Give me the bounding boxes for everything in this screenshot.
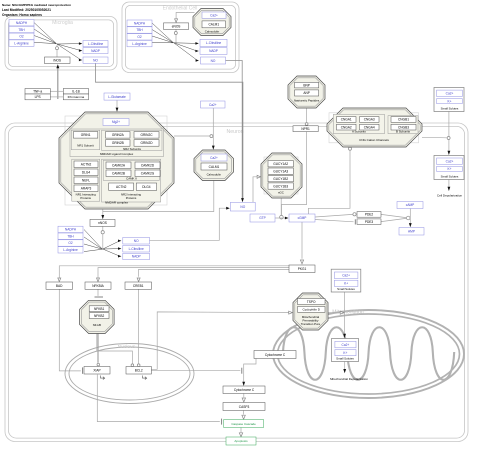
- svg-text:Nucleus: Nucleus: [118, 344, 136, 350]
- neuron L-Citrulline: [123, 245, 150, 252]
- CNG channels group box: [329, 113, 419, 143]
- GUCY1B3: [268, 183, 293, 189]
- svg-text:AMP: AMP: [408, 230, 415, 234]
- svg-text:NADP: NADP: [91, 49, 100, 53]
- TSPO: [298, 299, 326, 305]
- svg-text:NR2 Subunits: NR2 Subunits: [123, 147, 141, 151]
- wire neuron product fan: [103, 241, 120, 249]
- svg-text:Apoptosis: Apoptosis: [234, 439, 248, 443]
- svg-text:GRIN2B: GRIN2B: [112, 141, 124, 145]
- wire cAMP to AMP: [409, 209, 411, 225]
- svg-text:XIAP: XIAP: [93, 369, 100, 373]
- wire MPTP to transport anchor: [328, 312, 341, 314]
- wire NPR1 catalysis to GTP-cGMP: [282, 132, 307, 215]
- svg-text:NADP: NADP: [132, 255, 141, 259]
- GRIN2A: [106, 132, 131, 139]
- svg-text:NEFL: NEFL: [82, 179, 90, 183]
- wire cGMP to PKG1: [301, 222, 303, 259]
- microglia products: [83, 41, 108, 47]
- BCL2 transcription glyph: [143, 376, 147, 380]
- IFN-Gamma: [63, 94, 88, 100]
- svg-text:CNGB1: CNGB1: [398, 118, 409, 122]
- GUCY1B2: [268, 176, 293, 182]
- CALM1 neuron: [201, 163, 227, 170]
- neuron substrates: [58, 226, 83, 232]
- svg-text:L-Arginine: L-Arginine: [132, 42, 147, 46]
- CAMK II group: [103, 161, 159, 181]
- svg-text:Microglia: Microglia: [52, 20, 73, 26]
- mitochondrion: [273, 310, 464, 398]
- svg-text:Proteins: Proteins: [126, 196, 137, 200]
- CREB1: [125, 282, 152, 289]
- wire caspase cascade to apoptosis: [240, 428, 242, 433]
- svg-text:Cell Depolarization: Cell Depolarization: [437, 194, 463, 198]
- wire nNOS catalysis: [102, 226, 104, 248]
- svg-text:GUCY1A3: GUCY1A3: [273, 169, 288, 173]
- NMDAR ligand complex group: [70, 129, 164, 157]
- wire CASP3 to caspase cascade: [243, 411, 245, 415]
- svg-text:NMDAR Ligand Complex: NMDAR Ligand Complex: [100, 152, 134, 156]
- svg-text:NO: NO: [211, 59, 216, 63]
- svg-text:Cytochrome C: Cytochrome C: [265, 353, 286, 357]
- svg-text:ACTN2: ACTN2: [81, 163, 92, 167]
- svg-text:Natriuretic Peptides: Natriuretic Peptides: [294, 99, 320, 103]
- NEFL: [74, 177, 98, 184]
- svg-text:O2: O2: [137, 35, 141, 39]
- GRIN2D: [134, 140, 159, 147]
- wire endothelial product fan: [174, 42, 197, 45]
- CNGB3: [391, 124, 416, 130]
- eNOS: [164, 23, 189, 30]
- CALM1 endothelial: [202, 21, 226, 28]
- wire cGMP inhibits PDE3: [315, 220, 354, 222]
- svg-text:IFN-Gamma: IFN-Gamma: [68, 95, 85, 99]
- CAMK2G: [135, 170, 160, 177]
- wire eNOS catalysis: [175, 29, 177, 42]
- svg-text:NMDAR complex: NMDAR complex: [105, 201, 129, 205]
- endothelial NO: [201, 57, 226, 64]
- svg-text:L-Citrulline: L-Citrulline: [129, 247, 144, 251]
- B subunits group: [388, 116, 418, 134]
- neuron compartment: [5, 123, 468, 442]
- NFKBIA: [85, 282, 111, 289]
- Cyclophilin D: [298, 307, 326, 313]
- svg-text:CAMK II: CAMK II: [126, 176, 137, 180]
- svg-text:K+: K+: [448, 167, 452, 171]
- wire NFkB to XIAP: [97, 334, 99, 363]
- svg-text:Ca2+: Ca2+: [342, 343, 350, 347]
- svg-text:TNF-a: TNF-a: [33, 90, 42, 94]
- svg-text:Neuron: Neuron: [226, 129, 243, 135]
- svg-text:Proteins: Proteins: [80, 196, 91, 200]
- svg-text:Mg2+: Mg2+: [112, 120, 120, 124]
- NFKB1: [89, 306, 109, 312]
- TNF-a: [25, 89, 50, 95]
- svg-text:L-Glutamate: L-Glutamate: [108, 95, 126, 99]
- GTP: [250, 214, 275, 222]
- ACTN2 NR2: [109, 183, 134, 190]
- svg-text:Small Solutes: Small Solutes: [441, 174, 459, 178]
- nucleus: [65, 344, 194, 404]
- ANP: [295, 90, 319, 96]
- CAMK2D: [135, 162, 160, 169]
- wire NO to sGC: [253, 177, 258, 203]
- svg-text:PKG1: PKG1: [298, 267, 307, 271]
- svg-text:L-Arginine: L-Arginine: [63, 248, 78, 252]
- svg-text:IL-1B: IL-1B: [72, 90, 80, 94]
- svg-text:Mitochondrial Depolarization: Mitochondrial Depolarization: [330, 377, 368, 381]
- central NO: [230, 202, 255, 211]
- CNGA2: [337, 124, 357, 130]
- endothelial cell compartment: [122, 2, 239, 73]
- GUCY1A3: [268, 168, 293, 174]
- CNGA1: [337, 117, 357, 123]
- svg-text:ANP: ANP: [303, 91, 310, 95]
- A subunits group: [333, 114, 384, 133]
- svg-text:CALM1: CALM1: [209, 165, 220, 169]
- svg-text:NO: NO: [93, 58, 98, 62]
- CAMK2B: [106, 170, 131, 177]
- calmodulin complex neuron octagon: [194, 150, 234, 181]
- wire microglia NO to central NO: [96, 63, 243, 199]
- svg-text:Ca2+: Ca2+: [210, 13, 218, 17]
- svg-text:ARAP3: ARAP3: [81, 187, 92, 191]
- cytochrome c cytosolic: [223, 386, 265, 394]
- svg-text:Transition Pore: Transition Pore: [301, 322, 321, 326]
- Ca2+ neuron complex: [201, 154, 227, 161]
- svg-text:O2: O2: [19, 35, 23, 39]
- svg-text:A Subunits: A Subunits: [352, 130, 366, 134]
- svg-text:CAMK2B: CAMK2B: [112, 172, 125, 176]
- natriuretic peptides octagon: [288, 76, 325, 108]
- svg-text:B Subunits: B Subunits: [396, 130, 411, 134]
- svg-text:Name: NO/cGMP/PKG mediated neu: Name: NO/cGMP/PKG mediated neuroprotecti…: [2, 3, 71, 7]
- svg-text:TBH: TBH: [136, 28, 143, 32]
- svg-text:GUCY1B3: GUCY1B3: [273, 184, 288, 188]
- svg-text:NR1 Subunit: NR1 Subunit: [77, 143, 94, 147]
- CNGB1: [391, 117, 416, 123]
- iNOS: [45, 57, 71, 64]
- wire to cell depolarization: [448, 180, 450, 188]
- svg-text:cAMP: cAMP: [406, 203, 415, 207]
- svg-text:Ca2+: Ca2+: [446, 92, 454, 96]
- wire BCL2 to MPTP: [151, 312, 288, 369]
- svg-text:K+: K+: [344, 282, 348, 286]
- svg-text:Ca2+: Ca2+: [446, 159, 454, 163]
- svg-text:NF-kB: NF-kB: [93, 323, 101, 327]
- wire microglia substrate fan: [34, 23, 57, 44]
- ACTN2: [74, 161, 98, 168]
- svg-text:iNOS: iNOS: [53, 59, 61, 63]
- svg-text:Cytochrome C: Cytochrome C: [234, 388, 255, 392]
- CASP3: [223, 403, 265, 411]
- apoptosis: [226, 437, 256, 445]
- BNP: [295, 82, 319, 88]
- CAMK2A: [106, 162, 131, 169]
- small solutes group 4: [332, 339, 359, 362]
- svg-text:GTP: GTP: [259, 216, 266, 220]
- NR2 subunits group: [102, 130, 162, 150]
- XIAP transcription glyph: [101, 376, 105, 380]
- neuron NO product: [123, 237, 150, 244]
- svg-text:Last Modified: 20250105052021: Last Modified: 20250105052021: [2, 8, 51, 12]
- BCL2: [126, 367, 151, 375]
- calmodulin complex endothelial octagon: [193, 9, 231, 36]
- microglia NO: [83, 57, 108, 63]
- svg-text:NADPH: NADPH: [16, 21, 28, 25]
- NMDAR complex octagon: [59, 112, 174, 209]
- svg-text:NADPH: NADPH: [65, 228, 77, 232]
- IL-1B: [63, 89, 88, 95]
- svg-text:NADP: NADP: [209, 49, 218, 53]
- svg-text:GRIN2D: GRIN2D: [140, 141, 153, 145]
- wire endothelial NO to central NO: [226, 61, 243, 200]
- NR2 interacting proteins group: [102, 159, 161, 202]
- wire BAD inhibits XIAP: [59, 289, 81, 371]
- svg-text:eNOS: eNOS: [172, 24, 181, 28]
- svg-text:NO: NO: [134, 239, 139, 243]
- svg-text:Calmodulin: Calmodulin: [207, 172, 222, 176]
- Mg2+: [103, 119, 129, 126]
- svg-text:GRIN2A: GRIN2A: [112, 133, 125, 137]
- svg-text:CREB1: CREB1: [133, 284, 144, 288]
- svg-text:BAD: BAD: [56, 284, 63, 288]
- sGC octagon: [261, 153, 302, 198]
- svg-text:Small Solutes: Small Solutes: [441, 106, 459, 110]
- NFKB2: [89, 313, 109, 319]
- wire PKG1 to BAD: [59, 266, 289, 278]
- caspase cascade: [224, 420, 264, 428]
- NMDAR complex group box: [65, 116, 167, 205]
- wire CNG anchor: [422, 136, 447, 139]
- svg-text:TBH: TBH: [67, 234, 74, 238]
- Ca2+ extracellular: [201, 101, 226, 108]
- wire solutes transport through CNG: [448, 112, 450, 152]
- svg-text:CNGA2: CNGA2: [341, 125, 352, 129]
- XIAP: [84, 367, 110, 375]
- CNGA3: [360, 117, 380, 123]
- wire cGMP to CNG channels: [308, 151, 350, 215]
- NR1 interacting proteins group: [72, 159, 100, 201]
- small solutes group 3: [331, 269, 361, 292]
- sGC complex group box: [264, 157, 298, 194]
- wire cytochrome c to CASP3: [243, 394, 245, 398]
- wire calmodulin to nNOS: [103, 181, 214, 212]
- wire solutes into mitochondrion: [344, 292, 346, 335]
- wire calmodulin to eNOS: [176, 13, 194, 19]
- Ca2+ endothelial complex: [202, 12, 226, 18]
- GRIN1: [73, 132, 97, 139]
- wire NMDAR transport anchor: [174, 135, 210, 137]
- endothelial substrates: [127, 20, 152, 26]
- microglia substrates: [9, 20, 34, 26]
- svg-text:Ca2+: Ca2+: [209, 103, 217, 107]
- DLG4: [74, 169, 98, 176]
- svg-text:L-Citrulline: L-Citrulline: [206, 41, 221, 45]
- PDE2: [357, 212, 381, 218]
- svg-text:GRIN2C: GRIN2C: [140, 133, 153, 137]
- wire cytokines to iNOS: [57, 68, 59, 99]
- svg-text:Caspase Cascade: Caspase Cascade: [231, 422, 256, 426]
- wire cGMP to PDE2: [315, 214, 353, 217]
- svg-text:NADPH: NADPH: [134, 21, 146, 25]
- cGMP: [289, 214, 315, 222]
- svg-text:L-Citrulline: L-Citrulline: [88, 42, 103, 46]
- wire CREB1 to BCL2: [138, 289, 140, 363]
- wire cytochrome c release: [244, 359, 256, 383]
- wire PDE2 PDE3 catalysis of cAMP: [381, 214, 406, 217]
- svg-text:cGMP: cGMP: [298, 216, 307, 220]
- wire endothelial substrate fan: [152, 23, 174, 43]
- svg-text:BCL2: BCL2: [135, 369, 143, 373]
- small solutes group 2: [434, 156, 464, 180]
- svg-text:K+: K+: [343, 351, 347, 355]
- wire BCL2 inhibits cytochrome c release: [151, 370, 240, 372]
- wire iNOS catalysis: [56, 45, 58, 58]
- svg-text:TSPO: TSPO: [307, 300, 316, 304]
- wire GTP to cGMP: [275, 217, 286, 219]
- GUCY1A2: [268, 161, 293, 167]
- wire PKG1 to CREB1: [139, 269, 289, 276]
- CNG cation channels octagon: [327, 108, 422, 147]
- wire natriuretic peptides to NPR1: [306, 108, 308, 122]
- neuron NADP: [123, 253, 150, 259]
- wire NFkB to BCL2: [97, 334, 133, 364]
- cytochrome c mitochondrial: [254, 351, 296, 359]
- GRIN2B: [106, 140, 131, 147]
- svg-text:sGC: sGC: [278, 190, 284, 194]
- svg-text:CASP3: CASP3: [239, 405, 250, 409]
- NFkB complex octagon: [80, 300, 115, 333]
- svg-text:Ca2+: Ca2+: [210, 156, 218, 160]
- svg-text:CAMK2A: CAMK2A: [112, 164, 126, 168]
- svg-text:Small Solutes: Small Solutes: [336, 357, 354, 361]
- svg-text:NO: NO: [240, 205, 245, 209]
- wire sGC catalysis: [280, 198, 282, 215]
- BAD: [46, 282, 73, 289]
- PDE3: [357, 219, 381, 225]
- svg-text:K+: K+: [448, 99, 452, 103]
- wire Ca to calmodulin complex: [212, 108, 214, 146]
- svg-text:GUCY1B2: GUCY1B2: [273, 177, 288, 181]
- endothelial products: [200, 39, 227, 46]
- wire L-Glutamate to NMDAR: [116, 100, 118, 108]
- svg-text:CALM1: CALM1: [208, 23, 219, 27]
- wire nNOS NO to central NO: [150, 208, 228, 240]
- wire neuron substrate fan: [84, 230, 102, 250]
- svg-text:PDE3: PDE3: [365, 220, 374, 224]
- wire NFKBIA inhibits NFkB: [97, 289, 99, 296]
- svg-text:BNP: BNP: [303, 83, 310, 87]
- svg-text:CNGA3: CNGA3: [364, 118, 375, 122]
- svg-text:Endothelial Cell: Endothelial Cell: [163, 6, 198, 12]
- svg-text:CNG Cation Channels: CNG Cation Channels: [359, 138, 389, 142]
- L-Glutamate: [104, 93, 130, 100]
- svg-text:DLG4: DLG4: [82, 171, 91, 175]
- svg-text:Cyclophilin D: Cyclophilin D: [302, 308, 320, 312]
- cAMP: [397, 202, 423, 209]
- wire to mitochondrial depolarization: [344, 362, 346, 370]
- svg-text:CAMK2G: CAMK2G: [141, 172, 155, 176]
- svg-text:NFKB1: NFKB1: [94, 307, 105, 311]
- MPTP octagon: [293, 293, 328, 330]
- NR1 subunit group: [71, 130, 99, 150]
- svg-text:ACTN2: ACTN2: [116, 185, 127, 189]
- svg-text:LPS: LPS: [35, 95, 41, 99]
- svg-text:Ca2+: Ca2+: [342, 274, 350, 278]
- svg-text:Small Solutes: Small Solutes: [337, 287, 355, 291]
- small solutes group 1: [434, 88, 464, 112]
- svg-text:nNOS: nNOS: [98, 221, 107, 225]
- LPS: [25, 94, 50, 100]
- wire NMDAR to nNOS: [102, 209, 104, 216]
- CNGA4: [360, 124, 380, 130]
- svg-text:Calmodulin: Calmodulin: [205, 30, 220, 34]
- svg-text:DLG4: DLG4: [142, 185, 151, 189]
- AMP: [399, 228, 424, 236]
- svg-text:CAMK2D: CAMK2D: [141, 164, 155, 168]
- PKG1: [289, 265, 315, 273]
- svg-text:NFKB2: NFKB2: [94, 314, 105, 318]
- ARAP3: [74, 185, 98, 192]
- wire microglia product fan: [57, 43, 81, 45]
- svg-text:GRIN1: GRIN1: [81, 133, 91, 137]
- svg-text:GUCY1A2: GUCY1A2: [273, 162, 288, 166]
- svg-text:L-Arginine: L-Arginine: [14, 41, 29, 45]
- nNOS: [90, 219, 115, 226]
- NPR1: [293, 126, 318, 132]
- DLG4 NR2: [136, 183, 156, 190]
- microglia compartment: [5, 17, 117, 71]
- wire PKG1 to NFKBIA: [98, 268, 289, 278]
- wire XIAP inhibits caspase cascade: [97, 375, 220, 422]
- svg-text:PDE2: PDE2: [365, 213, 374, 217]
- svg-text:NFKBIA: NFKBIA: [92, 284, 104, 288]
- svg-text:TBH: TBH: [18, 28, 25, 32]
- GRIN2C: [134, 132, 159, 139]
- svg-text:O2: O2: [68, 241, 72, 245]
- svg-text:CNGA1: CNGA1: [341, 118, 352, 122]
- svg-text:NPR1: NPR1: [301, 127, 310, 131]
